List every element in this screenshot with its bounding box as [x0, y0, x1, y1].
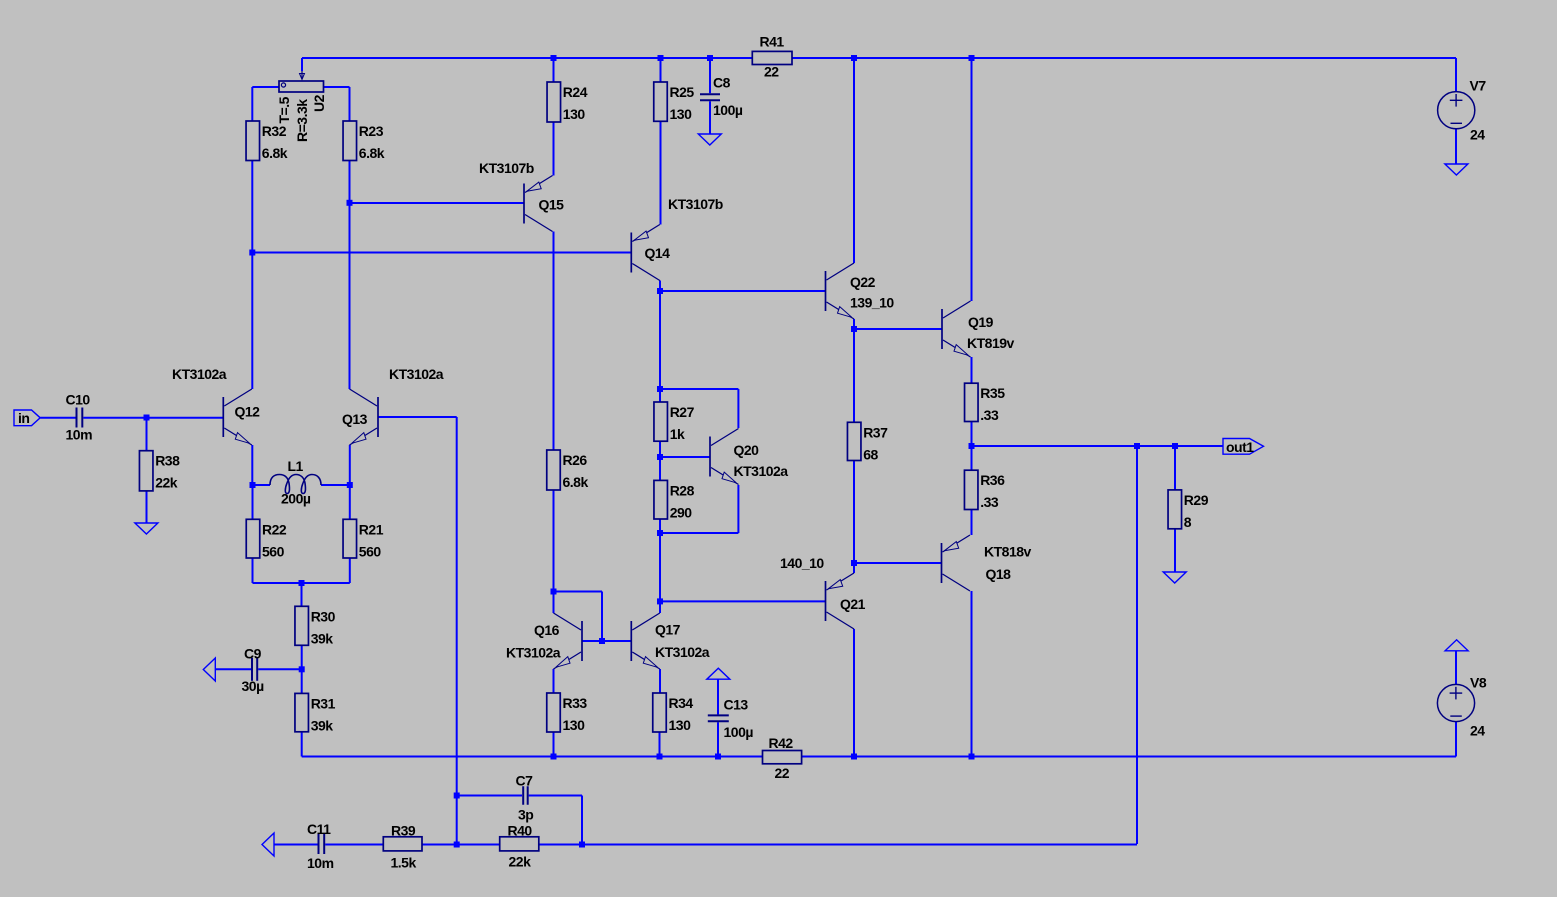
svg-text:130: 130	[669, 717, 692, 733]
svg-text:C13: C13	[724, 697, 749, 713]
svg-text:Q18: Q18	[986, 566, 1012, 582]
svg-text:Q15: Q15	[539, 197, 565, 213]
svg-text:290: 290	[670, 504, 693, 520]
svg-text:R39: R39	[391, 823, 416, 839]
svg-text:R30: R30	[311, 608, 336, 624]
svg-text:R33: R33	[563, 695, 588, 711]
svg-text:6.8k: 6.8k	[359, 145, 385, 161]
svg-text:KT3102a: KT3102a	[506, 645, 561, 661]
svg-text:KT3102a: KT3102a	[389, 366, 444, 382]
svg-text:6.8k: 6.8k	[262, 145, 288, 161]
svg-text:10m: 10m	[66, 427, 93, 443]
svg-text:R32: R32	[262, 123, 287, 139]
svg-text:10m: 10m	[307, 855, 334, 871]
svg-text:Q19: Q19	[968, 314, 994, 330]
svg-text:Q17: Q17	[655, 622, 681, 638]
svg-text:C8: C8	[713, 75, 731, 91]
svg-text:39k: 39k	[311, 717, 334, 733]
svg-text:R29: R29	[1184, 492, 1209, 508]
svg-text:3p: 3p	[518, 807, 533, 823]
svg-text:out1: out1	[1226, 439, 1254, 455]
svg-text:R24: R24	[563, 84, 588, 100]
svg-text:R25: R25	[670, 84, 695, 100]
svg-text:130: 130	[670, 106, 693, 122]
svg-text:30µ: 30µ	[242, 678, 265, 694]
svg-text:C7: C7	[516, 773, 534, 789]
svg-text:R35: R35	[980, 385, 1005, 401]
svg-text:R23: R23	[359, 123, 384, 139]
svg-text:in: in	[18, 410, 29, 426]
svg-text:39k: 39k	[311, 630, 334, 646]
svg-text:C11: C11	[307, 821, 331, 837]
svg-text:Q12: Q12	[235, 404, 261, 420]
svg-text:68: 68	[863, 446, 878, 462]
svg-text:.33: .33	[980, 494, 999, 510]
svg-text:22: 22	[775, 765, 790, 781]
svg-text:Q16: Q16	[534, 622, 560, 638]
svg-text:R28: R28	[670, 482, 695, 498]
svg-text:T=.5: T=.5	[276, 96, 292, 123]
svg-text:R42: R42	[769, 735, 794, 751]
svg-text:139_10: 139_10	[850, 295, 894, 311]
svg-text:22k: 22k	[509, 854, 532, 870]
svg-text:L1: L1	[288, 458, 304, 474]
svg-text:KT819v: KT819v	[967, 335, 1015, 351]
svg-text:R36: R36	[980, 472, 1005, 488]
svg-text:KT818v: KT818v	[984, 544, 1032, 560]
svg-text:R34: R34	[669, 695, 694, 711]
svg-text:560: 560	[262, 543, 285, 559]
svg-text:KT3102a: KT3102a	[172, 366, 227, 382]
svg-text:24: 24	[1470, 127, 1485, 143]
svg-text:8: 8	[1184, 514, 1192, 530]
svg-text:1k: 1k	[670, 426, 685, 442]
svg-text:C10: C10	[66, 392, 91, 408]
svg-text:R26: R26	[563, 452, 588, 468]
svg-text:100µ: 100µ	[724, 724, 754, 740]
svg-text:Q20: Q20	[734, 442, 760, 458]
svg-text:KT3102a: KT3102a	[655, 644, 710, 660]
svg-text:Q14: Q14	[645, 245, 671, 261]
svg-text:140_10: 140_10	[780, 555, 824, 571]
svg-text:V8: V8	[1470, 675, 1487, 691]
svg-text:R31: R31	[311, 695, 336, 711]
svg-text:6.8k: 6.8k	[563, 474, 589, 490]
svg-text:KT3107b: KT3107b	[668, 196, 723, 212]
svg-text:1.5k: 1.5k	[391, 855, 417, 871]
svg-text:R40: R40	[508, 823, 533, 839]
svg-text:R37: R37	[863, 424, 888, 440]
svg-text:KT3107b: KT3107b	[479, 160, 534, 176]
svg-text:22k: 22k	[155, 475, 178, 491]
svg-text:100µ: 100µ	[713, 102, 743, 118]
svg-text:Q13: Q13	[342, 411, 368, 427]
svg-text:R=3.3k: R=3.3k	[294, 99, 310, 142]
svg-text:Q21: Q21	[840, 596, 866, 612]
svg-text:22: 22	[764, 63, 779, 79]
svg-text:V7: V7	[1470, 78, 1487, 94]
svg-text:R38: R38	[155, 453, 180, 469]
svg-text:C9: C9	[244, 646, 262, 662]
svg-text:24: 24	[1470, 723, 1485, 739]
svg-text:.33: .33	[980, 407, 999, 423]
svg-text:R27: R27	[670, 404, 695, 420]
svg-text:R41: R41	[760, 34, 785, 50]
svg-text:KT3102a: KT3102a	[734, 463, 789, 479]
svg-text:560: 560	[359, 543, 382, 559]
svg-text:130: 130	[563, 717, 586, 733]
svg-text:130: 130	[563, 106, 586, 122]
svg-text:200µ: 200µ	[281, 491, 311, 507]
svg-text:U2: U2	[311, 94, 327, 112]
svg-text:R21: R21	[359, 521, 384, 537]
svg-text:Q22: Q22	[850, 274, 876, 290]
svg-text:R22: R22	[262, 521, 287, 537]
